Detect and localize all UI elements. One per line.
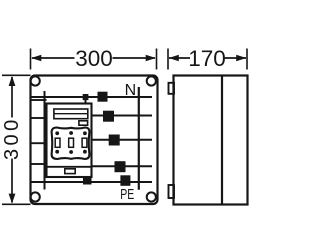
- svg-text:300: 300: [1, 116, 23, 160]
- dimension 170 horizontal: left extension tick: [167, 49, 169, 70]
- busbar L2: [91, 139, 152, 141]
- side view enclosure body: [174, 76, 248, 205]
- svg-text:PE: PE: [120, 185, 134, 202]
- left busbar support rail: [44, 91, 46, 190]
- terminal on N bar (small, from switch): [83, 94, 89, 100]
- fuse cover rivet top-left: [55, 131, 59, 135]
- terminal T1 on N bar: [98, 92, 108, 102]
- dimension 170 horizontal: right extension tick: [246, 49, 248, 70]
- dimension 300 vertical: line bottom segment: [11, 159, 13, 203]
- side view hinge tab top: [169, 83, 175, 94]
- fuse switch label window divider: [54, 113, 88, 115]
- fuse carrier cover (scalloped): [52, 127, 90, 159]
- dimension 300 horizontal: left extension tick: [30, 49, 32, 70]
- dimension 300 horizontal: right extension tick: [156, 49, 158, 70]
- side view cover split line: [221, 76, 223, 205]
- terminal T2 on L1 bar: [103, 111, 114, 122]
- busbar PE (bottom, full width): [31, 181, 152, 183]
- fuse cover rivet top-middle: [69, 131, 73, 135]
- feed-in stub 2: [31, 117, 47, 119]
- dimension 300 vertical: bottom extension tick: [2, 203, 31, 205]
- feed-in stub 3: [31, 142, 47, 144]
- dimension 170 horizontal: line right segment: [223, 57, 246, 59]
- side view hinge tab bottom: [169, 185, 175, 198]
- svg-text:300: 300: [75, 46, 113, 71]
- svg-text:170: 170: [188, 46, 226, 71]
- fuse switch label window: [54, 109, 88, 119]
- fuse cover rivet top-right: [83, 131, 87, 135]
- dimension 170 horizontal: left arrowhead: [169, 55, 179, 62]
- dimension 300 vertical: bottom arrowhead: [9, 194, 16, 204]
- corner screw bottom-left: [31, 192, 40, 201]
- terminal T3 on L2 bar: [109, 135, 120, 146]
- fuse switch bottom latch: [65, 169, 75, 174]
- dimension 300 horizontal: line right segment: [113, 57, 156, 59]
- busbar L1: [91, 115, 152, 117]
- corner screw bottom-right: [147, 192, 156, 201]
- fuse switch latch tab: [79, 121, 88, 125]
- dimension 170 horizontal: right arrowhead: [236, 55, 246, 62]
- dimension 300 horizontal: right arrowhead: [146, 55, 156, 62]
- fuse switch bottom shelf line: [47, 166, 92, 168]
- fuse cover rivet bottom-right: [83, 150, 87, 154]
- corner screw top-left: [31, 76, 40, 85]
- busbar L3: [91, 165, 152, 167]
- fuse cover rivet bottom-left: [55, 150, 59, 154]
- fuse window slot 3: [82, 138, 87, 147]
- right busbar support rail: [138, 87, 140, 190]
- feed-in stub 1: [31, 99, 47, 101]
- front view enclosure body: [31, 76, 158, 205]
- fuse switch disconnector body: [47, 104, 92, 178]
- connector switch top to N bar: [85, 99, 87, 104]
- svg-text:N: N: [125, 82, 137, 99]
- terminal T4 on L3 bar: [115, 161, 126, 172]
- dimension 300 horizontal: line left segment: [32, 57, 75, 59]
- fuse window slot 2: [69, 138, 74, 147]
- dimension 300 horizontal: left arrowhead: [31, 55, 41, 62]
- busbar N (top, full width): [31, 96, 152, 98]
- dimension 300 vertical: line top segment: [11, 77, 13, 118]
- dimension 300 vertical: top extension tick: [2, 74, 31, 76]
- terminal on PE bar at switch bottom: [83, 178, 92, 185]
- feed-in stub 4: [31, 163, 47, 165]
- corner screw top-right: [147, 76, 156, 85]
- fuse cover rivet bottom-middle: [69, 150, 73, 154]
- fuse window slot 1: [55, 138, 60, 147]
- dimension 300 vertical: top arrowhead: [9, 76, 16, 86]
- terminal T5 on PE bar: [120, 175, 130, 186]
- dimension 170 horizontal: line left segment: [169, 57, 190, 59]
